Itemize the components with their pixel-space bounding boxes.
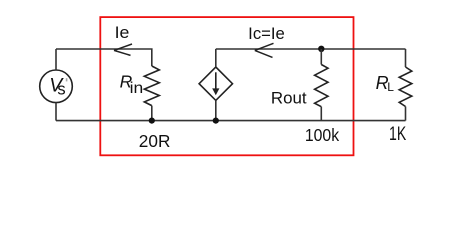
svg-text:Ic=Ie: Ic=Ie: [248, 25, 285, 43]
wire Vs bottom stub: [55, 103, 57, 121]
arrow inside current source: [215, 72, 217, 90]
svg-text:1K: 1K: [389, 124, 406, 145]
wire top left segment Vs to Rin: [56, 49, 152, 66]
svg-text:in: in: [130, 80, 144, 97]
dependent current source diamond: [199, 67, 232, 100]
wire RL bottom stub: [405, 107, 407, 121]
svg-text:20R: 20R: [139, 131, 171, 151]
node junction dot Rout top: [318, 46, 324, 52]
voltage source Vs: [40, 70, 73, 103]
red boundary box: [100, 17, 353, 155]
wire Rout bottom stub: [320, 107, 322, 121]
artifact tick near Vs: [66, 78, 68, 81]
svg-text:s: s: [57, 81, 65, 99]
node junction dot diamond bottom: [213, 118, 219, 124]
svg-text:Rout: Rout: [271, 89, 307, 107]
wire top right segment diamond to RL: [216, 48, 406, 50]
wire Vs top stub: [55, 49, 57, 70]
resistor RL: [399, 67, 412, 107]
resistor Rin: [144, 66, 159, 106]
wire bottom rail: [56, 120, 406, 122]
node junction dot Rin bottom: [149, 118, 155, 124]
svg-text:Ie: Ie: [115, 23, 130, 42]
wire diamond bottom stub: [215, 100, 217, 120]
wire Rin bottom stub: [151, 106, 153, 121]
current arrow Ic: [255, 43, 274, 57]
wire diamond top stub: [215, 49, 217, 67]
svg-text:L: L: [387, 80, 394, 94]
wire RL top stub: [405, 49, 407, 67]
resistor Rout: [315, 65, 328, 107]
wire Rout top stub: [320, 49, 322, 65]
svg-text:100k: 100k: [305, 125, 339, 145]
current arrow Ie: [114, 44, 132, 55]
